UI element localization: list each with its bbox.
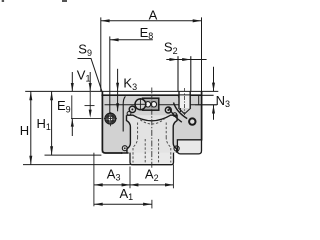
svg-text:A2: A2: [145, 167, 159, 183]
svg-text:V1: V1: [77, 68, 91, 84]
svg-text:N3: N3: [216, 93, 230, 109]
svg-text:A: A: [149, 7, 158, 22]
svg-text:H1: H1: [37, 116, 51, 132]
svg-text:E8: E8: [140, 25, 154, 41]
svg-text:E9: E9: [57, 98, 71, 114]
svg-text:K3: K3: [123, 76, 137, 92]
svg-text:A3: A3: [107, 166, 121, 182]
svg-text:A1: A1: [120, 186, 134, 202]
svg-text:S2: S2: [164, 40, 178, 56]
svg-text:H: H: [20, 123, 29, 138]
svg-text:S9: S9: [78, 42, 92, 58]
